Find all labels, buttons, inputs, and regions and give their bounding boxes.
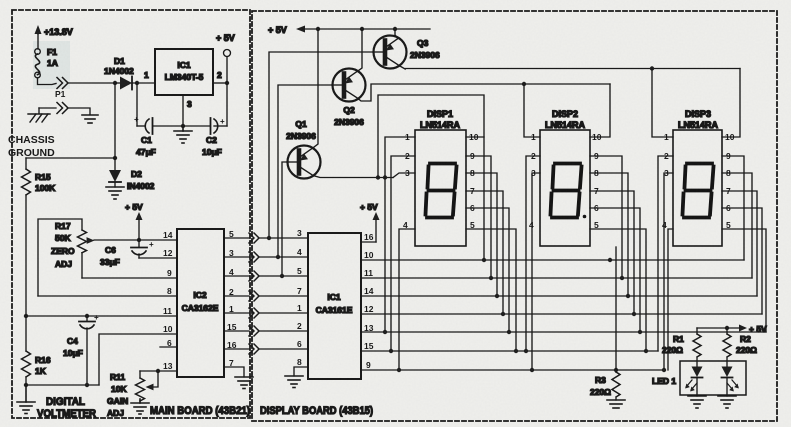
wire DISP2 pin9 riser	[590, 156, 622, 278]
wire to DISP3 pin10	[722, 69, 740, 138]
junction	[507, 330, 511, 334]
wire Q1 emitter	[312, 29, 318, 149]
chassis ground symbol	[8, 114, 55, 159]
junction	[225, 81, 229, 85]
wire Q3 base	[269, 52, 373, 238]
resistor R3 220ohm	[590, 372, 620, 400]
fuse area highlight	[33, 41, 70, 89]
wire DISP1 pin2 riser	[391, 156, 415, 351]
resistor R1 220ohm	[662, 328, 701, 366]
junction	[156, 369, 160, 373]
wire DISP1 pin1 riser	[385, 137, 415, 332]
wire	[183, 125, 210, 127]
wire row5 IC2 pin1	[224, 312, 249, 314]
junction	[383, 330, 387, 334]
junction	[113, 156, 117, 160]
diode D1 1N4002	[104, 56, 155, 90]
wire	[136, 83, 138, 126]
chevron row5	[249, 308, 259, 318]
wire P1 lower	[39, 107, 56, 109]
IC2 CA3162E	[177, 229, 224, 377]
ground (R16 / input common)	[17, 385, 35, 414]
wire DISP1 pin8 riser	[466, 173, 497, 296]
wire pin3	[182, 95, 184, 126]
transistor Q1 2N3906	[286, 119, 320, 179]
wire segment row pin14	[361, 295, 757, 297]
node +5V (display rail)	[268, 25, 430, 35]
wire IC1 pin8 to ground	[294, 367, 308, 376]
wire DISP3 pin4 riser	[668, 229, 673, 370]
junction	[662, 368, 666, 372]
wire	[259, 295, 308, 297]
wire Q3 emitter	[395, 29, 398, 39]
junction	[608, 258, 612, 262]
potentiometer R11 10K	[107, 371, 158, 418]
resistor R16 1K	[22, 316, 51, 377]
ground (R11)	[131, 399, 149, 414]
wire row1 IC2 pin5	[224, 237, 249, 239]
wire segment row pin13	[361, 331, 766, 333]
transistor Q2 2N3906	[332, 69, 366, 128]
junction	[267, 236, 271, 240]
wire DISP3 pin5 riser	[722, 229, 766, 332]
junction	[620, 276, 624, 280]
wire row7 IC2 pin16	[224, 348, 249, 350]
wire	[38, 108, 40, 113]
junction	[24, 383, 28, 387]
chevron row7	[249, 344, 259, 354]
display board border (43B15)	[252, 11, 777, 421]
wire Q3 collector	[399, 66, 740, 70]
junction	[135, 81, 139, 85]
chevron row2	[249, 252, 259, 262]
junction	[397, 368, 401, 372]
ground (IC2 pin7)	[235, 377, 253, 389]
DISP2 pin labels	[529, 132, 602, 230]
DISP1 pin labels	[403, 132, 479, 230]
wire	[114, 158, 116, 170]
wire pin13 row	[140, 370, 177, 372]
DISP3 7-segment glyph	[683, 164, 714, 218]
DISP2 decimal point	[583, 215, 587, 219]
wire DISP1 pin9 riser	[466, 156, 491, 278]
junction	[85, 383, 89, 387]
IC1 right pin number labels	[364, 232, 374, 370]
wire pin14 row (wiper)	[94, 239, 177, 241]
wire	[68, 108, 90, 114]
junction	[522, 82, 526, 86]
LED D-a	[685, 367, 702, 397]
display DISP1 LN514RA	[415, 109, 466, 246]
DISP2 7-segment glyph	[551, 164, 582, 218]
junction	[85, 314, 89, 318]
wire	[259, 330, 308, 332]
wire	[259, 312, 308, 314]
capacitor C6 33uF	[100, 240, 154, 267]
resistor R15 100K	[22, 158, 57, 195]
connector P1 chevron b	[57, 103, 68, 114]
wire	[114, 83, 116, 158]
node +13.8V	[35, 25, 73, 37]
node +5V terminal	[216, 33, 235, 83]
wire to DISP3 pin1	[652, 69, 673, 138]
junction	[644, 349, 648, 353]
junction	[181, 124, 185, 128]
wire	[38, 78, 57, 85]
wire DISP1 pin7 riser	[466, 191, 503, 314]
wire DISP2 pin3 riser	[532, 173, 540, 370]
junction	[389, 349, 393, 353]
wire segment row pin10	[361, 259, 744, 261]
wire DISP1 pin10 stub	[466, 136, 484, 138]
junction	[524, 349, 528, 353]
wire pin6 stub	[160, 346, 177, 348]
junction	[495, 294, 499, 298]
chevron row1	[249, 233, 259, 243]
wire row4 IC2 pin2	[224, 295, 249, 297]
wire DISP2 pin6 riser	[590, 208, 640, 332]
wire	[26, 157, 115, 159]
resistor R2 220ohm	[723, 328, 757, 366]
wire DISP2 pin7 riser	[590, 191, 634, 314]
wire DISP2 pin2 riser	[526, 156, 540, 351]
wire Q2 collector	[358, 84, 610, 101]
ground (R3)	[607, 400, 625, 408]
wire	[226, 83, 228, 126]
wire pin9 row	[82, 277, 177, 279]
wire to DISP1 pin3	[393, 173, 415, 178]
DISP3 pin labels	[662, 132, 735, 230]
node +5V (IC1 pin16)	[360, 202, 380, 242]
junction	[632, 312, 636, 316]
junction	[626, 294, 630, 298]
junction	[638, 330, 642, 334]
fuse F1	[35, 47, 58, 78]
wire row2 IC2 pin3	[224, 256, 249, 258]
junction	[113, 81, 117, 85]
potentiometer R17 50K	[38, 219, 95, 296]
wire DISP3 pin2 riser	[658, 156, 673, 351]
wire row3 IC2 pin4	[224, 275, 249, 277]
wire	[37, 34, 39, 49]
ground (IC1 pin8)	[285, 376, 303, 388]
wire pin10 tap	[99, 334, 177, 385]
IC1 left pin number labels	[297, 228, 302, 367]
junction	[725, 326, 729, 330]
junction	[383, 175, 387, 179]
display DISP3 LN514RA	[673, 109, 722, 246]
capacitor C4 10uF	[63, 313, 99, 385]
junction	[24, 314, 28, 318]
chevron row3	[249, 271, 259, 281]
junction	[280, 274, 284, 278]
wire to DISP2 pin10	[590, 84, 610, 137]
wire	[68, 82, 114, 84]
wire	[25, 377, 27, 385]
wire	[214, 125, 227, 127]
ground (LED a)	[688, 396, 706, 408]
IC2 left pin number labels	[163, 230, 173, 371]
wire DISP1 pin5 riser	[466, 229, 516, 351]
chevron row4	[249, 291, 259, 301]
ground (D2)	[106, 187, 124, 199]
wire segment row pin9	[361, 369, 664, 371]
wire DISP3 pin9 riser	[722, 156, 744, 260]
wire	[259, 275, 308, 277]
junction	[614, 368, 618, 372]
main board border (43B21)	[12, 10, 250, 418]
regulator IC1 LM340T-5	[155, 49, 213, 95]
node +5V (C6)	[125, 202, 143, 240]
wire segment row pin11	[361, 277, 752, 279]
DISP1 7-segment glyph	[426, 164, 457, 218]
junction	[137, 238, 141, 242]
wire DISP3 pin7 riser	[722, 191, 757, 296]
node +5V (LED supply)	[697, 324, 767, 334]
junction	[650, 66, 654, 70]
wire segment row pin12	[361, 313, 762, 315]
junction	[530, 368, 534, 372]
ground (P1 return)	[82, 115, 98, 123]
wire	[213, 82, 227, 84]
wire pin12 row	[139, 257, 177, 259]
wire	[259, 256, 308, 258]
transistor Q3 2N3906	[373, 36, 440, 69]
junction	[501, 312, 505, 316]
wire row6 IC2 pin15	[224, 330, 249, 332]
wire segment row pin15	[361, 350, 658, 352]
junction	[482, 258, 486, 262]
wire pin8 row	[38, 295, 177, 297]
wire R3 drop	[615, 247, 617, 372]
scan noise overlay	[0, 0, 1, 1]
junction	[514, 349, 518, 353]
capacitor C1 47uF	[134, 115, 156, 157]
ground (IC1 pin3)	[174, 126, 192, 143]
wire	[153, 125, 183, 127]
junction	[276, 255, 280, 259]
junction	[316, 27, 320, 31]
wire to DISP2 pin1	[524, 84, 540, 137]
wire DISP2 pin8 riser	[590, 173, 628, 296]
junction	[360, 27, 364, 31]
wire DISP3 pin8 riser	[722, 173, 752, 278]
capacitor C2 10uF	[202, 117, 225, 157]
display DISP2 LN514RA	[540, 109, 590, 246]
connector P1 chevron a	[55, 78, 68, 100]
wire	[259, 237, 308, 239]
wire	[25, 195, 27, 316]
ground (LED b)	[718, 396, 736, 408]
junction	[489, 276, 493, 280]
op-amp IC1 CA3161E	[308, 233, 361, 379]
wire Q1 collector	[313, 176, 393, 178]
label DIGITAL VOLTMETER	[37, 396, 96, 420]
IC2 right pin number labels	[227, 229, 237, 368]
wire bottom rail	[137, 125, 144, 127]
junction	[393, 27, 397, 31]
wire IC2 pin7 to ground	[224, 367, 244, 377]
wire ground rail	[26, 384, 99, 386]
junction	[376, 175, 380, 179]
LED1 enclosure box	[680, 361, 746, 395]
wire DISP1 anode loop	[378, 95, 484, 260]
wire Q1 base	[282, 162, 287, 276]
wire Q2 base	[278, 85, 332, 257]
wire DISP1 pin6 riser	[466, 208, 509, 332]
wire DISP2 pin5 riser	[590, 229, 646, 351]
wire Q2 emitter	[357, 29, 362, 72]
wire DISP1 pin4 riser	[399, 229, 415, 370]
wire	[259, 348, 308, 350]
wire DISP3 pin6 riser	[722, 208, 762, 314]
chevron row6	[249, 326, 259, 336]
LED D-b	[722, 367, 739, 397]
wire pin11 row	[26, 315, 177, 317]
diode D2 1N4002	[109, 169, 155, 191]
wire DISP3 pin3 riser	[664, 173, 673, 370]
